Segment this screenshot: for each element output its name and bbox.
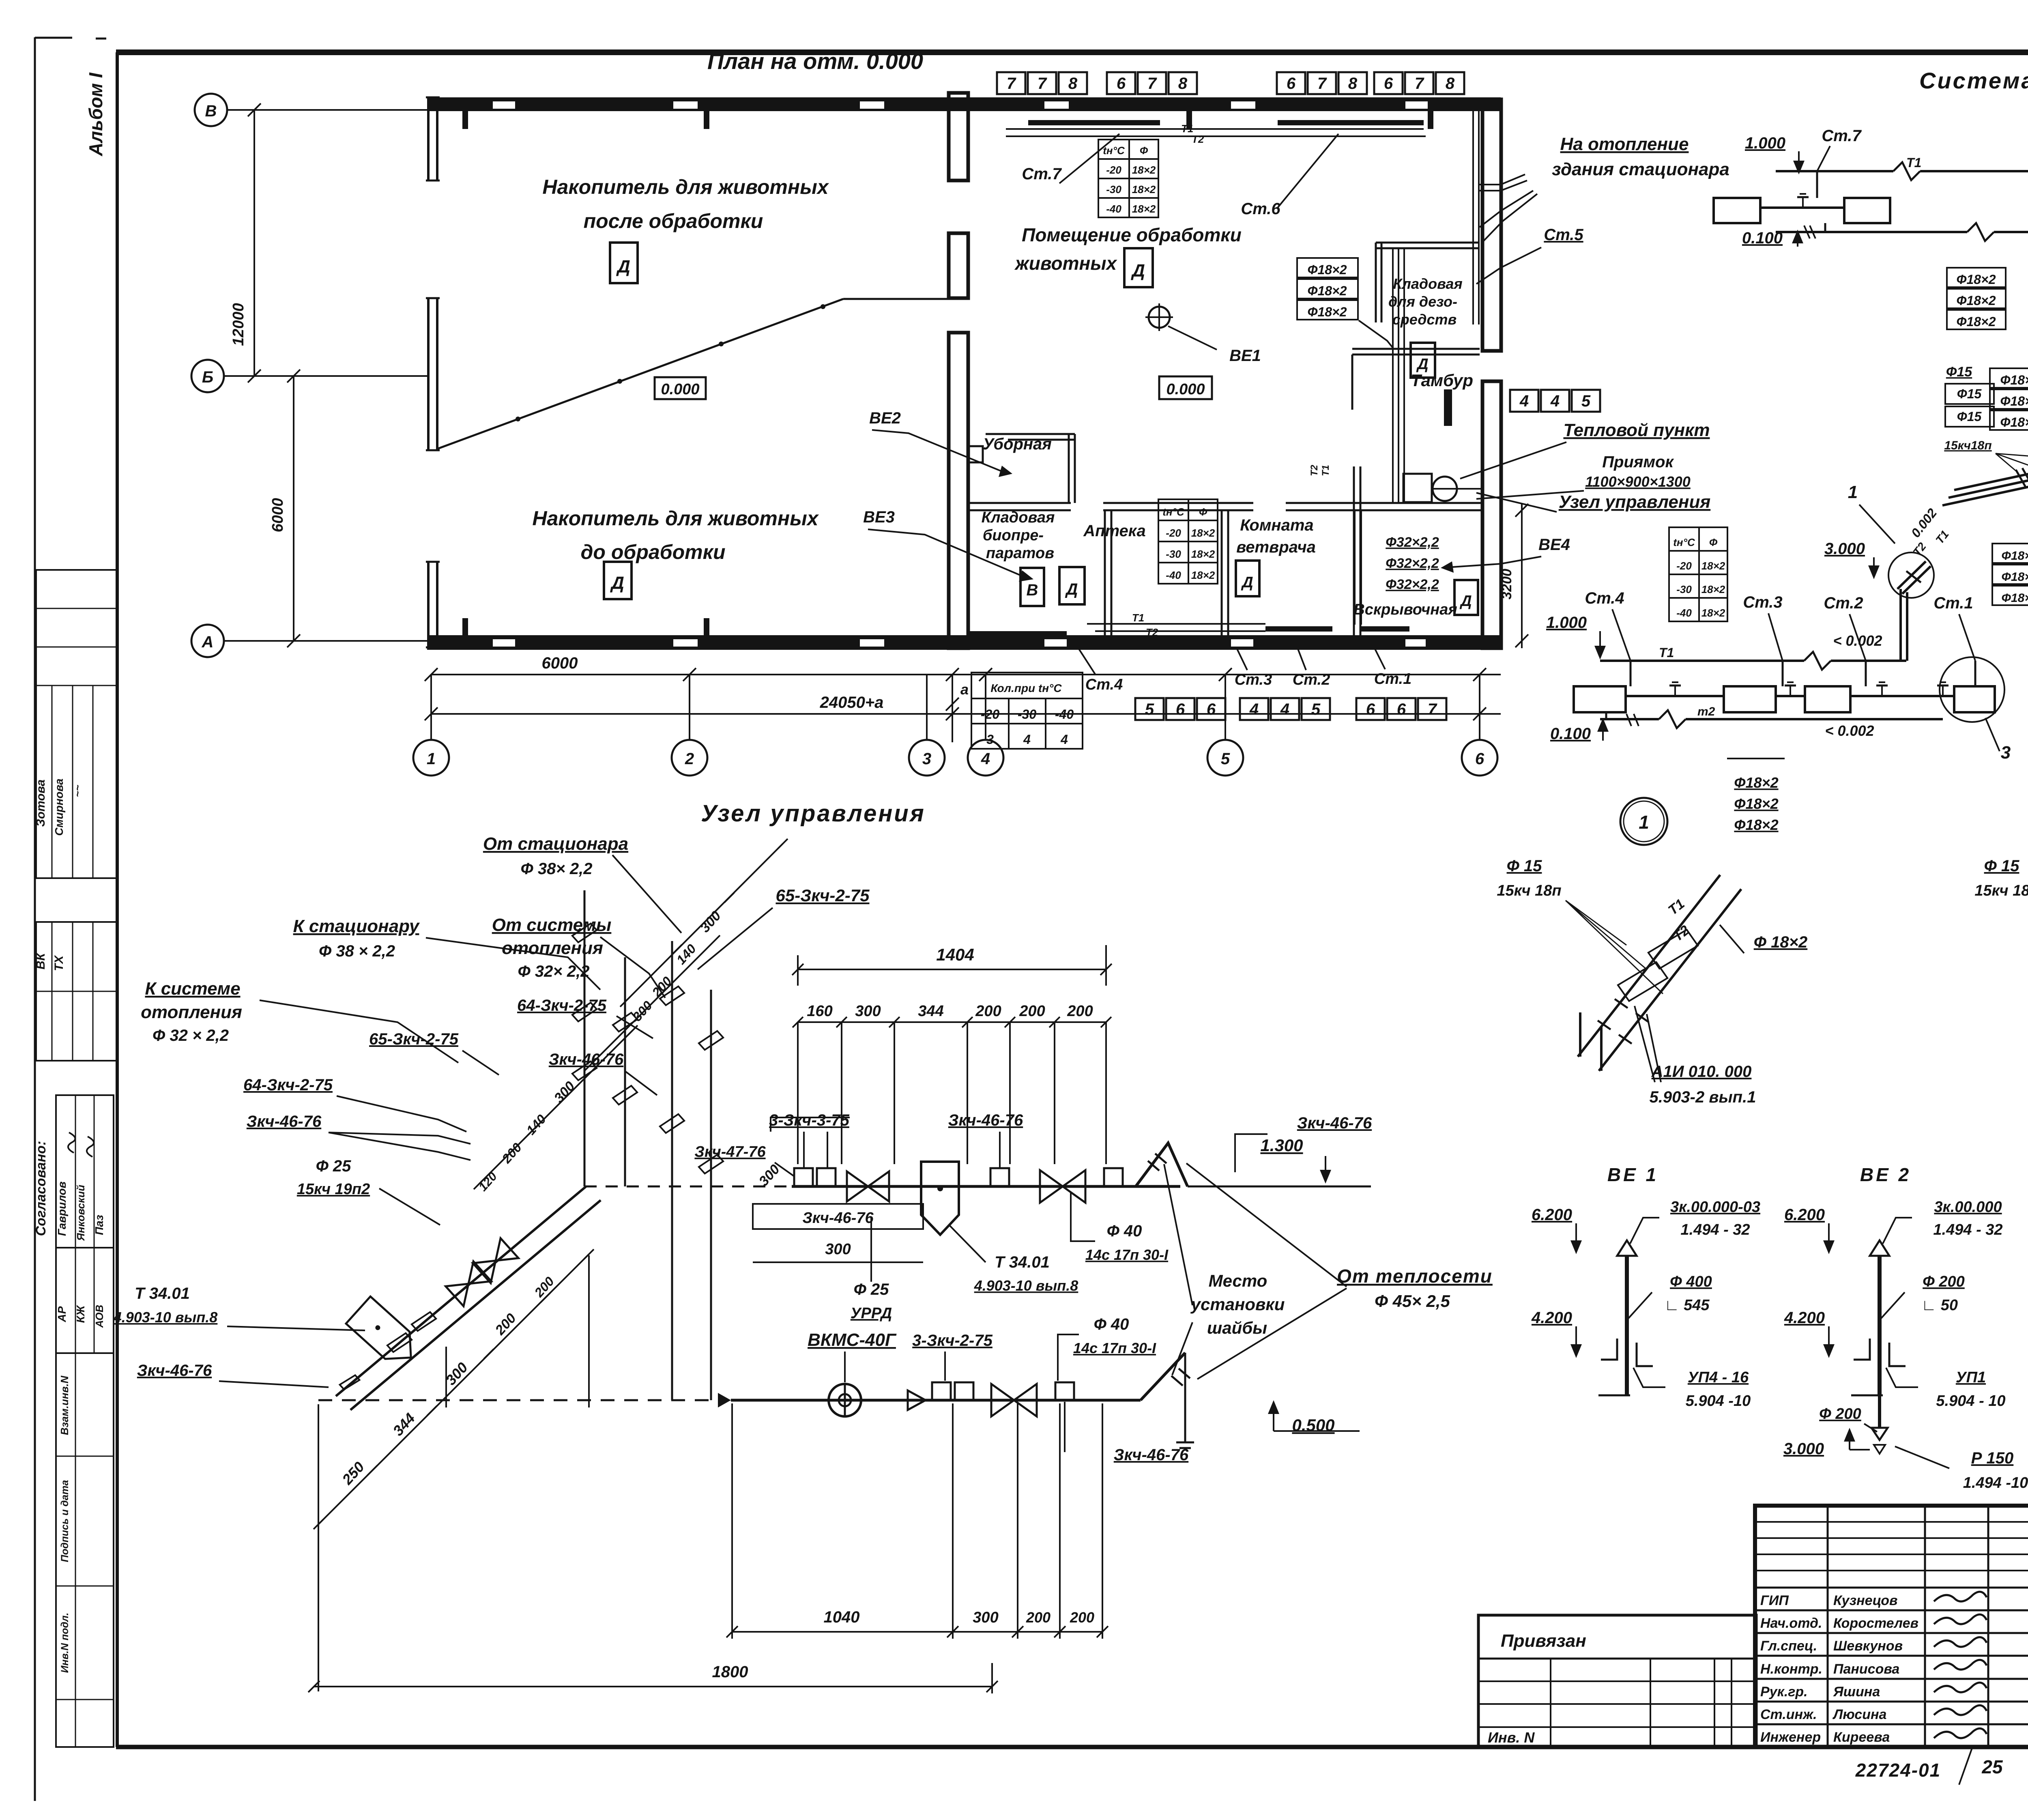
svg-text:18×2: 18×2 — [1701, 583, 1725, 595]
svg-text:Ф18×2: Ф18×2 — [2002, 591, 2028, 605]
heating title — [1919, 68, 2028, 93]
uzel boxed Зкч-46-76 300 — [753, 1204, 923, 1262]
uzel label Ф40 upper — [1071, 1193, 1169, 1263]
axis circle А — [191, 625, 427, 657]
plan label ВЕ2 — [869, 409, 1012, 477]
dim 6000 vertical — [269, 376, 294, 641]
svg-text:Яшина: Яшина — [1833, 1684, 1880, 1700]
svg-text:Ф32×2,2: Ф32×2,2 — [1386, 535, 1439, 550]
svg-text:Д: Д — [1416, 356, 1428, 373]
svg-text:0.000: 0.000 — [661, 381, 699, 398]
svg-text:Приямок: Приямок — [1602, 453, 1674, 471]
uzel mark 1.300 — [1260, 1136, 1331, 1184]
svg-text:Согласовано:: Согласовано: — [33, 1141, 49, 1236]
riser ВЕ 1 low ref — [1633, 1368, 1751, 1410]
riser ВЕ 1 top ref — [1630, 1199, 1760, 1244]
plan elevation box 0.000 right — [1159, 376, 1212, 399]
svg-text:6: 6 — [1207, 700, 1216, 718]
svg-text:300: 300 — [973, 1609, 998, 1626]
riser ВЕ 1 low level 4.200 — [1531, 1309, 1582, 1358]
riser ВЕ 2 stand pipe — [1870, 1240, 1889, 1395]
plan text Аптека — [1083, 522, 1146, 540]
svg-text:ВЕ1: ВЕ1 — [1229, 347, 1261, 365]
svg-text:Ф18×2: Ф18×2 — [1307, 262, 1347, 277]
svg-text:7: 7 — [1428, 700, 1437, 718]
svg-text:отопления: отопления — [502, 938, 603, 958]
uzel diagonal mud trap — [346, 1296, 423, 1371]
riser ВЕ 2 top level 6.200 — [1784, 1206, 1835, 1254]
svg-text:3: 3 — [2001, 743, 2011, 763]
plan room text Накопитель после обработки — [542, 176, 829, 232]
svg-text:tн°C: tн°C — [1673, 536, 1695, 548]
svg-text:Н.контр.: Н.контр. — [1760, 1661, 1822, 1677]
svg-text:tн°C: tн°C — [1162, 506, 1185, 518]
svg-text:Ст.6: Ст.6 — [1241, 200, 1280, 218]
uzel label От теплосети — [1186, 1163, 1493, 1379]
svg-text:-40: -40 — [1055, 707, 1074, 722]
heating bundle washers — [2016, 449, 2028, 488]
svg-text:Ф32×2,2: Ф32×2,2 — [1386, 556, 1439, 571]
riser ВЕ 2 low level 4.200 — [1784, 1309, 1835, 1358]
uzel label ВКМС-40Г — [808, 1330, 897, 1382]
svg-text:Зкч-46-76: Зкч-46-76 — [549, 1051, 624, 1068]
svg-text:животных: животных — [1014, 253, 1118, 274]
plan boxed cols row 445 upper — [1510, 390, 1600, 412]
svg-text:4: 4 — [1280, 700, 1289, 718]
uzel upper run valve right — [1040, 1170, 1085, 1203]
svg-text:1.300: 1.300 — [1260, 1136, 1303, 1155]
uzel label 65-3кч-2-75 left — [369, 1030, 499, 1075]
uzel label Т34.01 left — [113, 1285, 365, 1330]
svg-text:Тамбур: Тамбур — [1411, 371, 1473, 390]
svg-text:200: 200 — [1019, 1003, 1045, 1020]
plan title — [707, 48, 923, 74]
uzel lower run dashed — [318, 1393, 731, 1407]
svg-text:tн°C: tн°C — [1103, 144, 1125, 157]
svg-text:5.904 -10: 5.904 -10 — [1686, 1392, 1751, 1410]
svg-text:Ф 38× 2,2: Ф 38× 2,2 — [521, 860, 593, 878]
uzel dim subdivision row — [793, 1003, 1111, 1164]
plan table Кол при t — [971, 673, 1083, 749]
plan axis circles bottom — [413, 675, 1497, 776]
svg-text:Инв.N подл.: Инв.N подл. — [59, 1613, 71, 1673]
binding table Привязан — [1478, 1615, 1756, 1747]
plan text Кладовая для дезосредств — [1388, 275, 1463, 328]
uzel label От стационара — [483, 834, 681, 933]
svg-text:3к.00.000-03: 3к.00.000-03 — [1670, 1199, 1760, 1216]
svg-text:18×2: 18×2 — [1701, 560, 1725, 572]
sheet outer edge line left — [35, 37, 106, 1801]
svg-text:В: В — [1027, 581, 1038, 599]
svg-text:установки: установки — [1190, 1295, 1285, 1314]
svg-text:6: 6 — [1397, 700, 1406, 718]
heating mark 3.000 — [1824, 540, 1880, 579]
svg-text:6: 6 — [1475, 750, 1484, 768]
uzel riser flags — [572, 921, 723, 1176]
plan center wall — [949, 93, 983, 648]
plan room mark Д 1 — [610, 243, 638, 283]
heating level 0.100 top — [1742, 226, 1815, 247]
uzel dim 1040 row — [726, 1403, 1108, 1639]
heating row2 label Ст.4 — [1585, 589, 1631, 661]
svg-text:Шевкунов: Шевкунов — [1833, 1638, 1903, 1654]
svg-text:А: А — [202, 633, 214, 651]
uzel label 64-3кч-2-75 left — [243, 1076, 466, 1132]
riser ВЕ2 extension down — [1783, 1395, 2028, 1491]
svg-text:200: 200 — [1070, 1609, 1094, 1626]
svg-text:Кладовая: Кладовая — [982, 509, 1055, 526]
svg-text:до обработки: до обработки — [580, 541, 725, 563]
svg-text:Т1: Т1 — [1132, 612, 1144, 624]
detail 1 label Ф15 — [1497, 857, 1663, 994]
heating row2 level 1.000 — [1546, 614, 1606, 660]
svg-text:Т2: Т2 — [1192, 133, 1204, 145]
uzel lower sensor right — [1055, 1382, 1074, 1452]
svg-text:3-Зкч-3-75: 3-Зкч-3-75 — [769, 1111, 849, 1129]
uzel label Т34.01 center — [974, 1253, 1078, 1294]
svg-text:6.200: 6.200 — [1784, 1206, 1825, 1224]
svg-text:160: 160 — [807, 1003, 832, 1020]
svg-text:4: 4 — [1550, 392, 1560, 410]
svg-text:4: 4 — [981, 750, 990, 768]
heating row2 T2 line — [1600, 705, 1943, 739]
svg-text:после обработки: после обработки — [584, 210, 763, 232]
plan temp table middle — [1158, 499, 1218, 584]
svg-text:Кладовая: Кладовая — [1393, 275, 1462, 292]
svg-text:-40: -40 — [1106, 203, 1121, 215]
heating label Ст.7 — [1817, 127, 1862, 171]
riser ВЕ 1 top level 6.200 — [1532, 1206, 1582, 1254]
svg-text:-40: -40 — [1166, 569, 1181, 581]
heating circled node 1 — [1620, 798, 1667, 845]
svg-text:Зкч-47-76: Зкч-47-76 — [694, 1143, 766, 1160]
svg-text:1.494 - 32: 1.494 - 32 — [1680, 1221, 1750, 1238]
plan text Комната ветврача — [1236, 516, 1316, 556]
svg-text:ветврача: ветврача — [1236, 538, 1316, 556]
svg-text:Ф18×2: Ф18×2 — [2002, 570, 2028, 584]
svg-text:Инв. N: Инв. N — [1488, 1729, 1535, 1746]
plan text Кладовая биопрепаратов — [982, 509, 1055, 562]
svg-text:Ст.2: Ст.2 — [1824, 594, 1863, 612]
uzel upper run valve left — [847, 1171, 889, 1201]
plan dim 3200 — [1499, 503, 1528, 648]
svg-text:Гл.спец.: Гл.спец. — [1760, 1638, 1817, 1654]
svg-text:Янковский: Янковский — [75, 1185, 87, 1241]
plan label ВЕ3 — [863, 508, 1033, 582]
svg-text:ГИП: ГИП — [1760, 1593, 1789, 1608]
svg-text:6000: 6000 — [542, 654, 578, 672]
uzel mud trap Т34.01 — [921, 1162, 986, 1262]
plan text Тамбур — [1411, 371, 1473, 390]
svg-text:Ф18×2: Ф18×2 — [1734, 795, 1778, 812]
svg-text:Накопитель для животных: Накопитель для животных — [542, 176, 829, 198]
dim 12000 vertical — [230, 110, 254, 376]
riser ВЕ 1 foot — [1598, 1339, 1653, 1395]
svg-text:1800: 1800 — [712, 1663, 748, 1681]
svg-text:Д: Д — [1459, 593, 1472, 610]
plan label Ст.6 — [1241, 134, 1338, 218]
axis circle В — [195, 94, 427, 126]
svg-text:Привязан: Привязан — [1501, 1631, 1586, 1651]
uzel label К стационару — [293, 916, 600, 990]
svg-text:Альбом I: Альбом I — [85, 72, 106, 157]
plan text Вскрывочная — [1353, 601, 1457, 618]
heating row2 radiators — [1574, 661, 1995, 719]
svg-text:0.000: 0.000 — [1166, 381, 1205, 398]
svg-text:Инженер: Инженер — [1760, 1730, 1821, 1745]
plan bottom dim line 6000 — [425, 654, 1501, 681]
svg-text:300: 300 — [855, 1003, 881, 1020]
uzel dim ladder right — [584, 839, 788, 1071]
svg-text:Кол.при tн°C: Кол.при tн°C — [990, 682, 1062, 694]
heating supply detail circle — [1888, 552, 1934, 598]
svg-text:1100×900×1300: 1100×900×1300 — [1585, 473, 1691, 490]
svg-text:∟ 545: ∟ 545 — [1664, 1297, 1710, 1314]
svg-text:Ст.3: Ст.3 — [1743, 593, 1782, 611]
riser ВЕ 1 header — [1607, 1164, 1658, 1185]
svg-text:Ф 25: Ф 25 — [854, 1281, 889, 1298]
svg-text:1.494 - 32: 1.494 - 32 — [1933, 1221, 2002, 1238]
svg-text:Ст.4: Ст.4 — [1085, 676, 1123, 693]
svg-text:1: 1 — [427, 750, 436, 768]
svg-text:Ф18×2: Ф18×2 — [1307, 305, 1347, 319]
svg-text:Ст.5: Ст.5 — [1544, 226, 1583, 244]
plan boxed cols row 778 — [997, 72, 1087, 94]
plan text Уборная — [983, 435, 1052, 453]
uzel lower washer riser — [1141, 1353, 1194, 1448]
riser ВЕ 1 stand pipe — [1617, 1240, 1637, 1395]
left margin label Альбом I — [85, 72, 106, 157]
svg-text:Зкч-46-76: Зкч-46-76 — [948, 1111, 1023, 1129]
svg-text:Ст.2: Ст.2 — [1293, 671, 1330, 688]
svg-text:65-Зкч-2-75: 65-Зкч-2-75 — [369, 1030, 459, 1048]
svg-text:ВЕ3: ВЕ3 — [863, 508, 895, 526]
svg-text:Ст.7: Ст.7 — [1022, 165, 1062, 183]
uzel lower check valve — [908, 1390, 926, 1410]
svg-text:4: 4 — [1249, 700, 1259, 718]
svg-text:6: 6 — [1384, 75, 1393, 92]
svg-text:Т 34.01: Т 34.01 — [135, 1285, 190, 1302]
svg-text:18×2: 18×2 — [1191, 527, 1215, 539]
svg-text:12000: 12000 — [230, 303, 247, 346]
svg-text:От стационара: От стационара — [483, 834, 628, 854]
svg-text:КЖ: КЖ — [74, 1304, 87, 1323]
svg-text:-30: -30 — [1018, 707, 1036, 722]
svg-text:Ст.инж.: Ст.инж. — [1760, 1707, 1817, 1722]
svg-text:паратов: паратов — [986, 545, 1054, 562]
svg-text:300: 300 — [825, 1241, 851, 1258]
svg-text:Т1: Т1 — [1659, 645, 1674, 660]
uzel pump ВКМС-40Г — [829, 1384, 861, 1416]
svg-text:Зкч-46-76: Зкч-46-76 — [137, 1362, 212, 1380]
riser ВЕ 1 mid ref — [1628, 1273, 1712, 1318]
heating supply vertical pair — [1901, 589, 1907, 661]
svg-text:25: 25 — [1981, 1756, 2003, 1777]
svg-text:Ф 45× 2,5: Ф 45× 2,5 — [1375, 1291, 1450, 1311]
plan lavatory walls — [986, 434, 1075, 503]
svg-text:Ф32×2,2: Ф32×2,2 — [1386, 577, 1439, 592]
uzel upper run dashed — [584, 1186, 792, 1188]
plan room mark Д 7 — [1411, 343, 1435, 378]
heating stack Ф15 group — [1944, 364, 2028, 473]
svg-text:Узел управления: Узел управления — [701, 800, 926, 827]
svg-text:7: 7 — [1007, 75, 1016, 92]
svg-text:14с 17п 30-I: 14с 17п 30-I — [1073, 1340, 1156, 1356]
svg-text:К стационару: К стационару — [293, 916, 420, 936]
svg-text:Коростелев: Коростелев — [1833, 1616, 1918, 1631]
svg-text:Ф 40: Ф 40 — [1107, 1222, 1142, 1240]
plan boxed cols row 678a — [1107, 72, 1197, 94]
svg-text:4.200: 4.200 — [1531, 1309, 1572, 1327]
plan ramp diagonal — [437, 299, 967, 449]
uzel upper run pipe — [792, 1185, 1180, 1188]
svg-text:От теплосети: От теплосети — [1337, 1266, 1493, 1287]
svg-text:ВЕ4: ВЕ4 — [1538, 536, 1570, 554]
svg-text:Д: Д — [1130, 261, 1145, 281]
uzel label Зкч-46-76 upper — [549, 1051, 657, 1095]
svg-text:Д: Д — [616, 257, 630, 277]
riser ВЕ 2 header — [1860, 1164, 1911, 1185]
svg-text:Ф18×2: Ф18×2 — [1956, 314, 1996, 329]
svg-text:3: 3 — [922, 750, 931, 768]
svg-text:Т1: Т1 — [1906, 155, 1921, 170]
uzel mark 0.500 — [1268, 1400, 1360, 1435]
plan label Ст.3 bottom — [1235, 649, 1272, 688]
svg-text:7: 7 — [1317, 75, 1327, 92]
heating stack Ф18 bottom — [1727, 759, 1785, 833]
svg-text:Ст.3: Ст.3 — [1235, 671, 1272, 688]
svg-text:Люсина: Люсина — [1832, 1707, 1886, 1722]
plan radiator bars bottom — [969, 612, 1409, 638]
svg-text:Рук.гр.: Рук.гр. — [1760, 1684, 1808, 1700]
heating stack Ф18 top — [1947, 268, 2006, 329]
svg-text:Зотова: Зотова — [34, 780, 47, 827]
svg-text:4: 4 — [1023, 732, 1031, 747]
plan room mark Д 6 — [1454, 580, 1478, 615]
heating row2 label Ст.1 — [1933, 594, 1975, 661]
svg-text:1: 1 — [1848, 482, 1858, 502]
svg-text:Т2: Т2 — [1309, 464, 1320, 476]
svg-text:-40: -40 — [1676, 607, 1692, 619]
svg-text:Ст.1: Ст.1 — [1374, 670, 1411, 688]
riser ВЕ 2 low ref — [1886, 1368, 2006, 1410]
plan elevation box 0.000 left — [655, 377, 706, 399]
svg-text:1: 1 — [1639, 812, 1649, 833]
svg-text:Смирнова: Смирнова — [53, 778, 65, 836]
svg-text:Ф18×2: Ф18×2 — [1956, 293, 1996, 308]
plan bottom dim line 24050 — [425, 694, 1501, 720]
svg-text:Ф: Ф — [1709, 536, 1718, 548]
svg-text:6: 6 — [1117, 75, 1126, 92]
uzel upper run sensor far right — [1104, 1168, 1123, 1186]
plan boxed cols row 566 — [1135, 698, 1225, 720]
svg-text:для дезо-: для дезо- — [1388, 293, 1457, 310]
uzel upper run sensors left — [794, 1168, 836, 1186]
uzel label 65-3кч-2-75 top — [698, 886, 870, 969]
svg-text:3200: 3200 — [1499, 569, 1515, 600]
riser ВЕ 2 foot — [1851, 1339, 1906, 1395]
svg-text:УП4 - 16: УП4 - 16 — [1688, 1369, 1749, 1386]
heating radiator pair Ст.7 — [1714, 171, 1890, 232]
svg-text:Ф18×2: Ф18×2 — [1734, 817, 1778, 833]
plan heat pipe bundle storeroom — [1309, 248, 1452, 625]
svg-text:Зкч-46-76: Зкч-46-76 — [247, 1113, 322, 1130]
plan label Ст.1 bottom — [1374, 649, 1411, 688]
heating T2 line top — [1776, 223, 2028, 241]
svg-text:Ф18×2: Ф18×2 — [1956, 272, 1996, 287]
svg-text:АР: АР — [56, 1306, 68, 1322]
uzel label 3-3кч-2-75 lower — [912, 1332, 993, 1381]
svg-text:Паз: Паз — [93, 1215, 105, 1235]
svg-text:Зкч-46-76: Зкч-46-76 — [1114, 1446, 1189, 1464]
riser ВЕ 2 mid ref — [1881, 1273, 1965, 1318]
svg-text:1.000: 1.000 — [1745, 134, 1785, 152]
svg-text:Ф18×2: Ф18×2 — [2002, 549, 2028, 563]
uzel lower valve — [991, 1384, 1037, 1416]
uzel label Ф25 left — [297, 1157, 440, 1225]
riser ВЕ 2 top ref — [1883, 1199, 2003, 1244]
axis circle Б — [191, 360, 427, 392]
svg-text:Тепловой пункт: Тепловой пункт — [1563, 420, 1710, 440]
plan stack Ф18 labels left of storeroom — [1297, 258, 1394, 349]
svg-text:18×2: 18×2 — [1191, 548, 1215, 560]
svg-text:-30: -30 — [1166, 548, 1181, 560]
uzel label Зкч-46-76 right — [1235, 1114, 1372, 1172]
svg-text:Панисова: Панисова — [1833, 1661, 1899, 1677]
svg-text:ВЕ 1: ВЕ 1 — [1607, 1164, 1658, 1185]
svg-text:1404: 1404 — [936, 945, 974, 964]
uzel label Зкч-46-76 left — [247, 1113, 470, 1160]
svg-text:На отопление: На отопление — [1560, 134, 1689, 154]
svg-text:Ф: Ф — [1199, 506, 1207, 518]
detail 1 pipes — [1578, 875, 1741, 1071]
plan heat pipe riser right — [1473, 110, 1527, 324]
plan partition wall horizontal — [968, 503, 1482, 510]
svg-text:6: 6 — [1287, 75, 1296, 92]
plan room mark В — [1020, 568, 1044, 606]
heating level 1.000 top — [1745, 134, 1805, 174]
svg-text:Место: Место — [1209, 1271, 1267, 1290]
svg-text:Ф 200: Ф 200 — [1819, 1405, 1861, 1422]
svg-text:УП1: УП1 — [1956, 1369, 1986, 1386]
svg-text:Система отопления: Система отопления — [1919, 68, 2028, 93]
svg-text:-30: -30 — [1676, 583, 1692, 595]
left margin table block 3 — [56, 1095, 114, 1353]
svg-text:5: 5 — [1311, 700, 1321, 718]
uzel diagonal valves — [340, 1238, 519, 1392]
left margin table block 4 inventory — [56, 1353, 114, 1747]
svg-text:8: 8 — [1178, 75, 1188, 92]
svg-text:8: 8 — [1348, 75, 1358, 92]
uzel riser pipes isometric — [584, 890, 711, 1400]
uzel label Зкч-46-76 lower left — [137, 1362, 329, 1387]
svg-text:6: 6 — [1176, 700, 1185, 718]
uzel label 64-3кч-2-75 upper — [517, 997, 653, 1038]
svg-text:План на отм. 0.000: План на отм. 0.000 — [707, 48, 923, 74]
svg-text:АОВ: АОВ — [93, 1305, 105, 1328]
uzel label 3-3кч-3-75 — [769, 1111, 850, 1167]
svg-text:7: 7 — [1147, 75, 1157, 92]
heating temp table right — [1669, 527, 1727, 621]
svg-text:Ф 400: Ф 400 — [1670, 1273, 1712, 1290]
svg-text:4.903-10 вып.8: 4.903-10 вып.8 — [113, 1309, 218, 1326]
svg-text:Ф 40: Ф 40 — [1094, 1315, 1129, 1333]
heating row2 label Ст.3 — [1743, 593, 1783, 661]
svg-text:Взам.инв.N: Взам.инв.N — [58, 1375, 71, 1435]
plan label Ст.5 — [1476, 226, 1583, 284]
uzel upper run washer riser — [1136, 1143, 1371, 1186]
plan label Узел управления — [1476, 492, 1710, 512]
